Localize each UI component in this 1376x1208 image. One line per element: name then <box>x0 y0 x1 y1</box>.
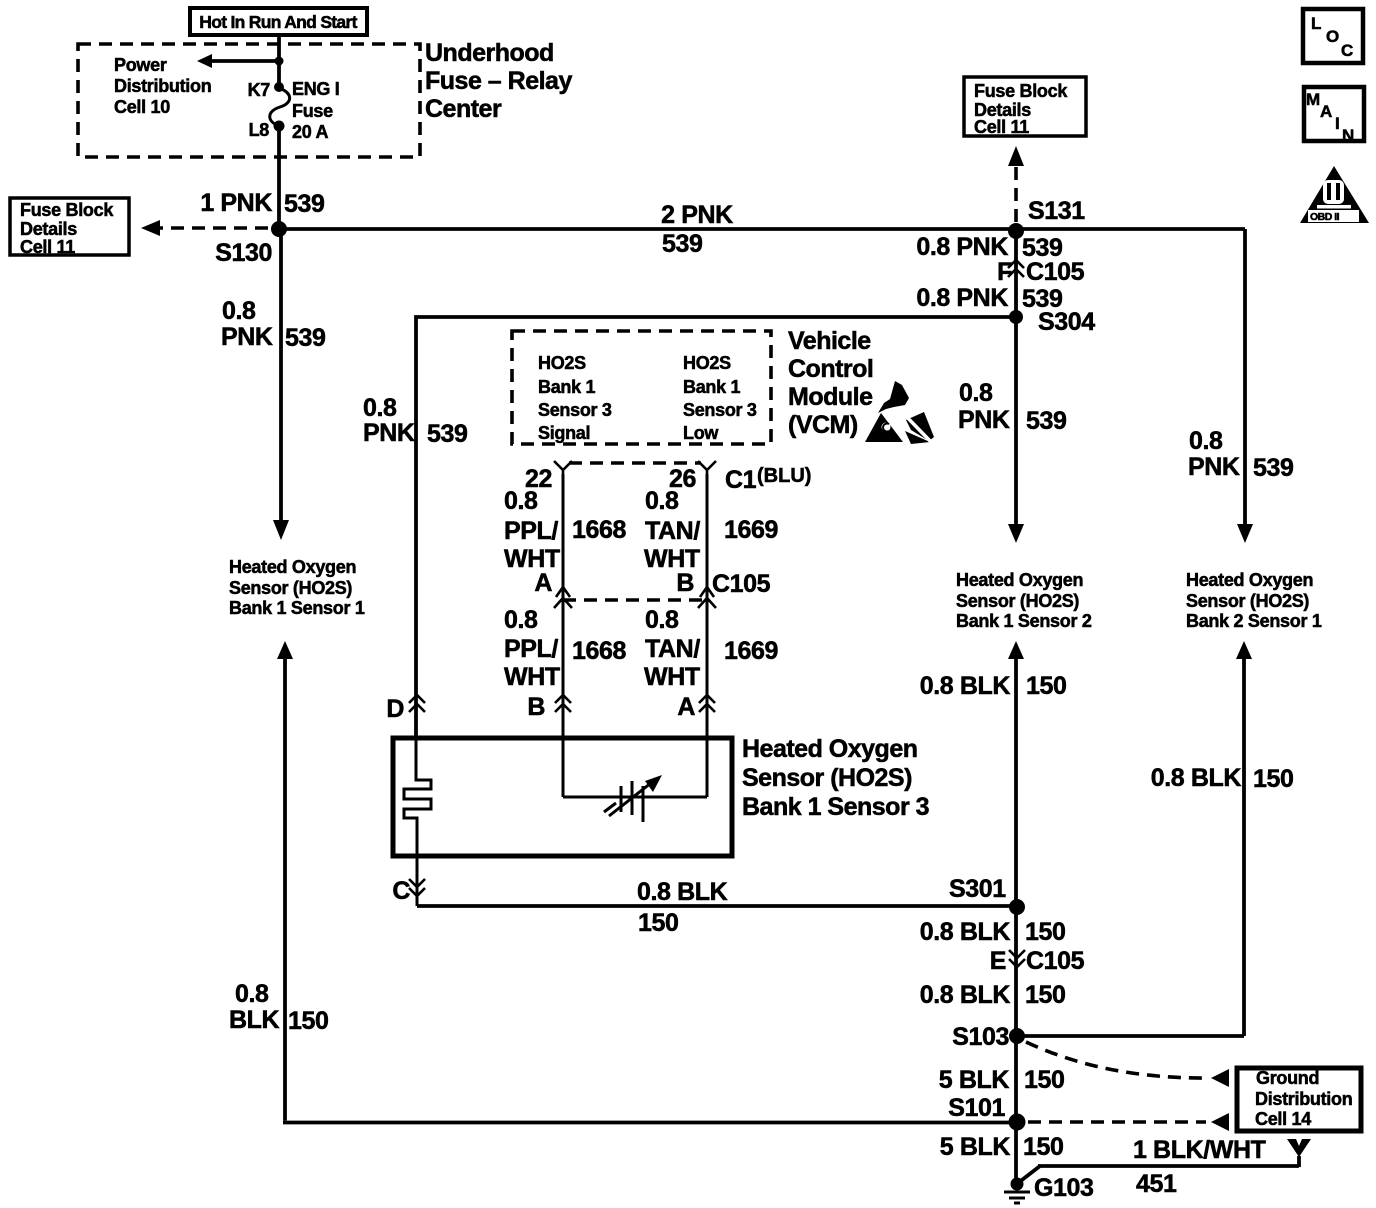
svg-text:A: A <box>1320 102 1332 121</box>
svg-text:B: B <box>527 693 545 721</box>
svg-text:Sensor (HO2S): Sensor (HO2S) <box>229 578 352 598</box>
svg-text:Power: Power <box>114 55 167 75</box>
svg-text:L: L <box>1311 14 1321 33</box>
svg-text:Underhood: Underhood <box>425 39 554 67</box>
svg-text:S131: S131 <box>1028 197 1085 225</box>
svg-text:1 BLK/WHT: 1 BLK/WHT <box>1133 1136 1266 1164</box>
svg-text:0.8 BLK: 0.8 BLK <box>920 672 1011 700</box>
svg-text:150: 150 <box>1023 1133 1064 1161</box>
svg-text:150: 150 <box>1025 981 1066 1009</box>
svg-text:1 PNK: 1 PNK <box>200 189 272 217</box>
svg-text:Bank 1: Bank 1 <box>683 377 741 397</box>
svg-text:Control: Control <box>788 355 873 383</box>
svg-text:A: A <box>534 569 552 597</box>
svg-text:L8: L8 <box>249 120 270 140</box>
svg-text:HO2S: HO2S <box>683 353 731 373</box>
svg-text:HO2S: HO2S <box>538 353 586 373</box>
svg-text:B: B <box>676 569 694 597</box>
svg-text:Ground: Ground <box>1256 1068 1319 1088</box>
svg-text:0.8 PNK: 0.8 PNK <box>916 233 1008 261</box>
svg-text:Fuse Block: Fuse Block <box>20 200 114 220</box>
svg-text:150: 150 <box>1024 1066 1065 1094</box>
svg-text:BLK: BLK <box>229 1006 280 1034</box>
svg-text:Sensor 3: Sensor 3 <box>683 400 757 420</box>
svg-text:0.8: 0.8 <box>1189 427 1223 455</box>
svg-text:Details: Details <box>20 219 77 239</box>
svg-text:(VCM): (VCM) <box>788 411 858 439</box>
svg-text:TAN/: TAN/ <box>645 635 700 663</box>
svg-text:Heated Oxygen: Heated Oxygen <box>956 570 1083 590</box>
svg-text:ENG I: ENG I <box>292 79 340 99</box>
svg-text:PPL/: PPL/ <box>504 635 558 663</box>
svg-text:2 PNK: 2 PNK <box>661 201 733 229</box>
svg-text:0.8: 0.8 <box>504 487 538 515</box>
svg-text:1668: 1668 <box>572 637 627 665</box>
svg-text:S101: S101 <box>948 1094 1005 1122</box>
svg-text:Signal: Signal <box>538 423 590 443</box>
svg-text:Cell 14: Cell 14 <box>1255 1109 1311 1129</box>
svg-text:C105: C105 <box>712 570 771 598</box>
svg-text:0.8: 0.8 <box>504 606 538 634</box>
svg-text:1668: 1668 <box>572 516 627 544</box>
svg-text:539: 539 <box>662 230 703 258</box>
svg-text:PNK: PNK <box>221 323 273 351</box>
svg-text:150: 150 <box>1026 672 1067 700</box>
svg-text:150: 150 <box>1253 765 1294 793</box>
svg-text:C: C <box>1341 41 1353 60</box>
svg-text:0.8 BLK: 0.8 BLK <box>920 918 1011 946</box>
svg-text:C: C <box>392 877 410 905</box>
svg-text:Bank 1 Sensor 3: Bank 1 Sensor 3 <box>742 793 929 821</box>
svg-text:S103: S103 <box>952 1023 1009 1051</box>
svg-text:S301: S301 <box>949 875 1006 903</box>
svg-text:Fuse Block: Fuse Block <box>974 81 1068 101</box>
svg-text:TAN/: TAN/ <box>645 517 700 545</box>
svg-text:1669: 1669 <box>724 516 778 544</box>
svg-text:WHT: WHT <box>504 663 560 691</box>
svg-text:I: I <box>1335 114 1340 133</box>
svg-text:150: 150 <box>638 909 679 937</box>
svg-text:539: 539 <box>427 420 468 448</box>
svg-text:Vehicle: Vehicle <box>788 327 871 355</box>
svg-text:0.8 BLK: 0.8 BLK <box>920 981 1011 1009</box>
svg-text:20 A: 20 A <box>292 122 328 142</box>
svg-text:Cell 10: Cell 10 <box>114 97 170 117</box>
svg-text:0.8: 0.8 <box>645 606 679 634</box>
svg-text:0.8: 0.8 <box>235 980 269 1008</box>
svg-text:Low: Low <box>683 423 719 443</box>
svg-text:539: 539 <box>1026 407 1067 435</box>
svg-text:Distribution: Distribution <box>114 76 211 96</box>
svg-text:Bank 1: Bank 1 <box>538 377 596 397</box>
svg-text:Sensor (HO2S): Sensor (HO2S) <box>1186 591 1309 611</box>
svg-text:0.8: 0.8 <box>363 394 397 422</box>
svg-text:Heated Oxygen: Heated Oxygen <box>1186 570 1313 590</box>
svg-text:(BLU): (BLU) <box>757 465 811 487</box>
svg-text:Bank 2 Sensor 1: Bank 2 Sensor 1 <box>1186 611 1322 631</box>
svg-text:A: A <box>677 693 695 721</box>
svg-text:150: 150 <box>288 1007 329 1035</box>
svg-text:N: N <box>1342 126 1354 145</box>
svg-text:Distribution: Distribution <box>1255 1089 1352 1109</box>
svg-text:0.8 PNK: 0.8 PNK <box>916 284 1008 312</box>
svg-text:S130: S130 <box>215 239 272 267</box>
svg-text:PNK: PNK <box>1188 453 1240 481</box>
svg-text:K7: K7 <box>248 80 271 100</box>
svg-text:C1: C1 <box>725 466 757 494</box>
svg-text:F: F <box>997 258 1012 286</box>
svg-text:Module: Module <box>788 383 873 411</box>
svg-text:Bank 1 Sensor 1: Bank 1 Sensor 1 <box>229 598 365 618</box>
svg-text:0.8: 0.8 <box>645 487 679 515</box>
svg-text:Heated Oxygen: Heated Oxygen <box>742 735 918 763</box>
svg-text:0.8 BLK: 0.8 BLK <box>637 878 728 906</box>
svg-text:Hot In Run And Start: Hot In Run And Start <box>199 12 357 32</box>
svg-text:PPL/: PPL/ <box>504 517 558 545</box>
svg-text:O: O <box>1326 27 1339 46</box>
svg-text:539: 539 <box>284 190 325 218</box>
svg-text:Heated Oxygen: Heated Oxygen <box>229 557 356 577</box>
svg-text:Sensor 3: Sensor 3 <box>538 400 612 420</box>
svg-text:Fuse: Fuse <box>292 101 333 121</box>
svg-text:0.8 BLK: 0.8 BLK <box>1151 764 1242 792</box>
svg-text:Fuse – Relay: Fuse – Relay <box>425 67 572 95</box>
svg-text:0.8: 0.8 <box>959 379 993 407</box>
svg-text:1669: 1669 <box>724 637 778 665</box>
svg-text:PNK: PNK <box>958 406 1010 434</box>
svg-text:WHT: WHT <box>644 663 700 691</box>
svg-text:OBD II: OBD II <box>1310 211 1340 223</box>
svg-text:5 BLK: 5 BLK <box>940 1133 1011 1161</box>
svg-text:Bank 1 Sensor 2: Bank 1 Sensor 2 <box>956 611 1092 631</box>
svg-text:C105: C105 <box>1026 258 1085 286</box>
svg-text:G103: G103 <box>1034 1174 1094 1202</box>
svg-text:M: M <box>1306 90 1320 109</box>
svg-text:539: 539 <box>285 324 326 352</box>
svg-text:Sensor (HO2S): Sensor (HO2S) <box>742 764 912 792</box>
svg-text:451: 451 <box>1136 1170 1177 1198</box>
svg-text:150: 150 <box>1025 918 1066 946</box>
svg-text:0.8: 0.8 <box>222 297 256 325</box>
svg-text:Sensor (HO2S): Sensor (HO2S) <box>956 591 1079 611</box>
svg-text:D: D <box>386 695 404 723</box>
svg-text:E: E <box>990 947 1006 975</box>
svg-text:5 BLK: 5 BLK <box>939 1066 1010 1094</box>
svg-text:Cell 11: Cell 11 <box>974 117 1029 137</box>
svg-text:Cell 11: Cell 11 <box>20 237 75 257</box>
svg-text:539: 539 <box>1253 454 1294 482</box>
svg-text:S304: S304 <box>1038 308 1095 336</box>
svg-text:C105: C105 <box>1026 947 1085 975</box>
svg-text:PNK: PNK <box>363 419 415 447</box>
svg-text:Center: Center <box>425 95 502 123</box>
